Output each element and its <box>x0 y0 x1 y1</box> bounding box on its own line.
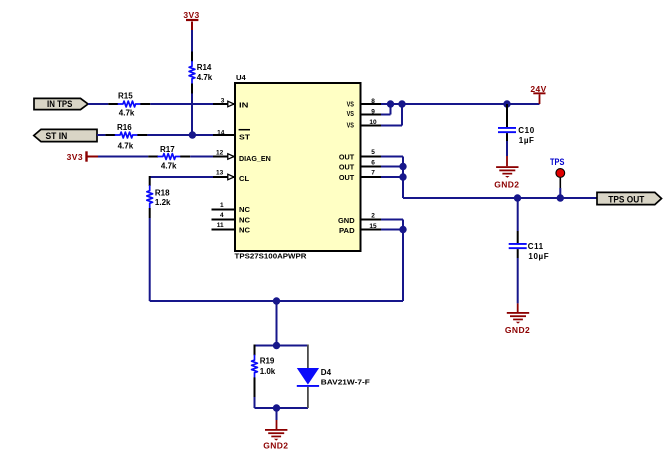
svg-text:C11: C11 <box>528 242 544 251</box>
svg-text:7: 7 <box>371 170 375 177</box>
svg-text:12: 12 <box>216 150 224 157</box>
svg-text:3V3: 3V3 <box>67 152 83 162</box>
svg-text:11: 11 <box>217 222 224 229</box>
svg-text:1.0k: 1.0k <box>260 367 276 376</box>
svg-text:15: 15 <box>369 223 377 230</box>
svg-text:NC: NC <box>239 207 250 214</box>
svg-text:NC: NC <box>239 227 250 234</box>
svg-text:TPS: TPS <box>550 157 564 167</box>
svg-text:R19: R19 <box>260 357 275 366</box>
svg-text:4.7k: 4.7k <box>161 162 177 171</box>
svg-text:GND2: GND2 <box>494 179 519 189</box>
svg-text:PAD: PAD <box>339 228 355 235</box>
svg-text:R14: R14 <box>197 63 212 72</box>
svg-text:ST: ST <box>239 134 251 141</box>
svg-text:14: 14 <box>217 129 225 136</box>
svg-text:DIAG_EN: DIAG_EN <box>239 156 271 163</box>
svg-text:CL: CL <box>239 176 250 183</box>
svg-text:R16: R16 <box>117 123 132 132</box>
svg-text:ST IN: ST IN <box>46 131 68 141</box>
svg-text:U4: U4 <box>236 75 246 82</box>
svg-text:TPS OUT: TPS OUT <box>608 194 644 204</box>
svg-text:4.7k: 4.7k <box>118 142 134 151</box>
svg-text:IN: IN <box>239 103 248 110</box>
svg-text:VS: VS <box>347 111 355 118</box>
svg-text:10µF: 10µF <box>528 252 549 261</box>
svg-text:9: 9 <box>371 108 375 115</box>
svg-text:OUT: OUT <box>339 175 355 182</box>
svg-text:3: 3 <box>221 98 225 105</box>
svg-text:R15: R15 <box>118 92 133 101</box>
svg-text:OUT: OUT <box>339 164 355 171</box>
svg-text:4: 4 <box>220 212 224 219</box>
svg-text:GND2: GND2 <box>505 325 530 335</box>
svg-text:R18: R18 <box>155 189 170 198</box>
svg-text:IN TPS: IN TPS <box>47 99 72 109</box>
svg-text:TPS27S100APWPR: TPS27S100APWPR <box>235 251 308 260</box>
svg-text:8: 8 <box>371 98 375 105</box>
svg-text:4.7k: 4.7k <box>119 109 135 118</box>
svg-text:10: 10 <box>369 119 377 126</box>
svg-text:5: 5 <box>371 149 375 156</box>
svg-text:4.7k: 4.7k <box>197 73 213 82</box>
svg-text:VS: VS <box>347 122 355 129</box>
svg-text:GND2: GND2 <box>263 441 288 451</box>
svg-text:6: 6 <box>371 159 375 166</box>
svg-text:R17: R17 <box>160 145 175 154</box>
svg-text:1µF: 1µF <box>519 136 535 145</box>
svg-text:GND: GND <box>338 218 355 225</box>
svg-text:BAV21W-7-F: BAV21W-7-F <box>321 378 370 387</box>
svg-text:2: 2 <box>371 213 375 220</box>
svg-text:1: 1 <box>220 202 224 209</box>
svg-text:D4: D4 <box>321 368 332 377</box>
svg-text:13: 13 <box>216 170 224 177</box>
svg-text:VS: VS <box>347 102 355 109</box>
svg-text:OUT: OUT <box>339 154 355 161</box>
svg-text:1.2k: 1.2k <box>155 198 171 207</box>
svg-text:3V3: 3V3 <box>183 10 199 20</box>
svg-text:C10: C10 <box>518 126 534 135</box>
svg-text:NC: NC <box>239 217 250 224</box>
